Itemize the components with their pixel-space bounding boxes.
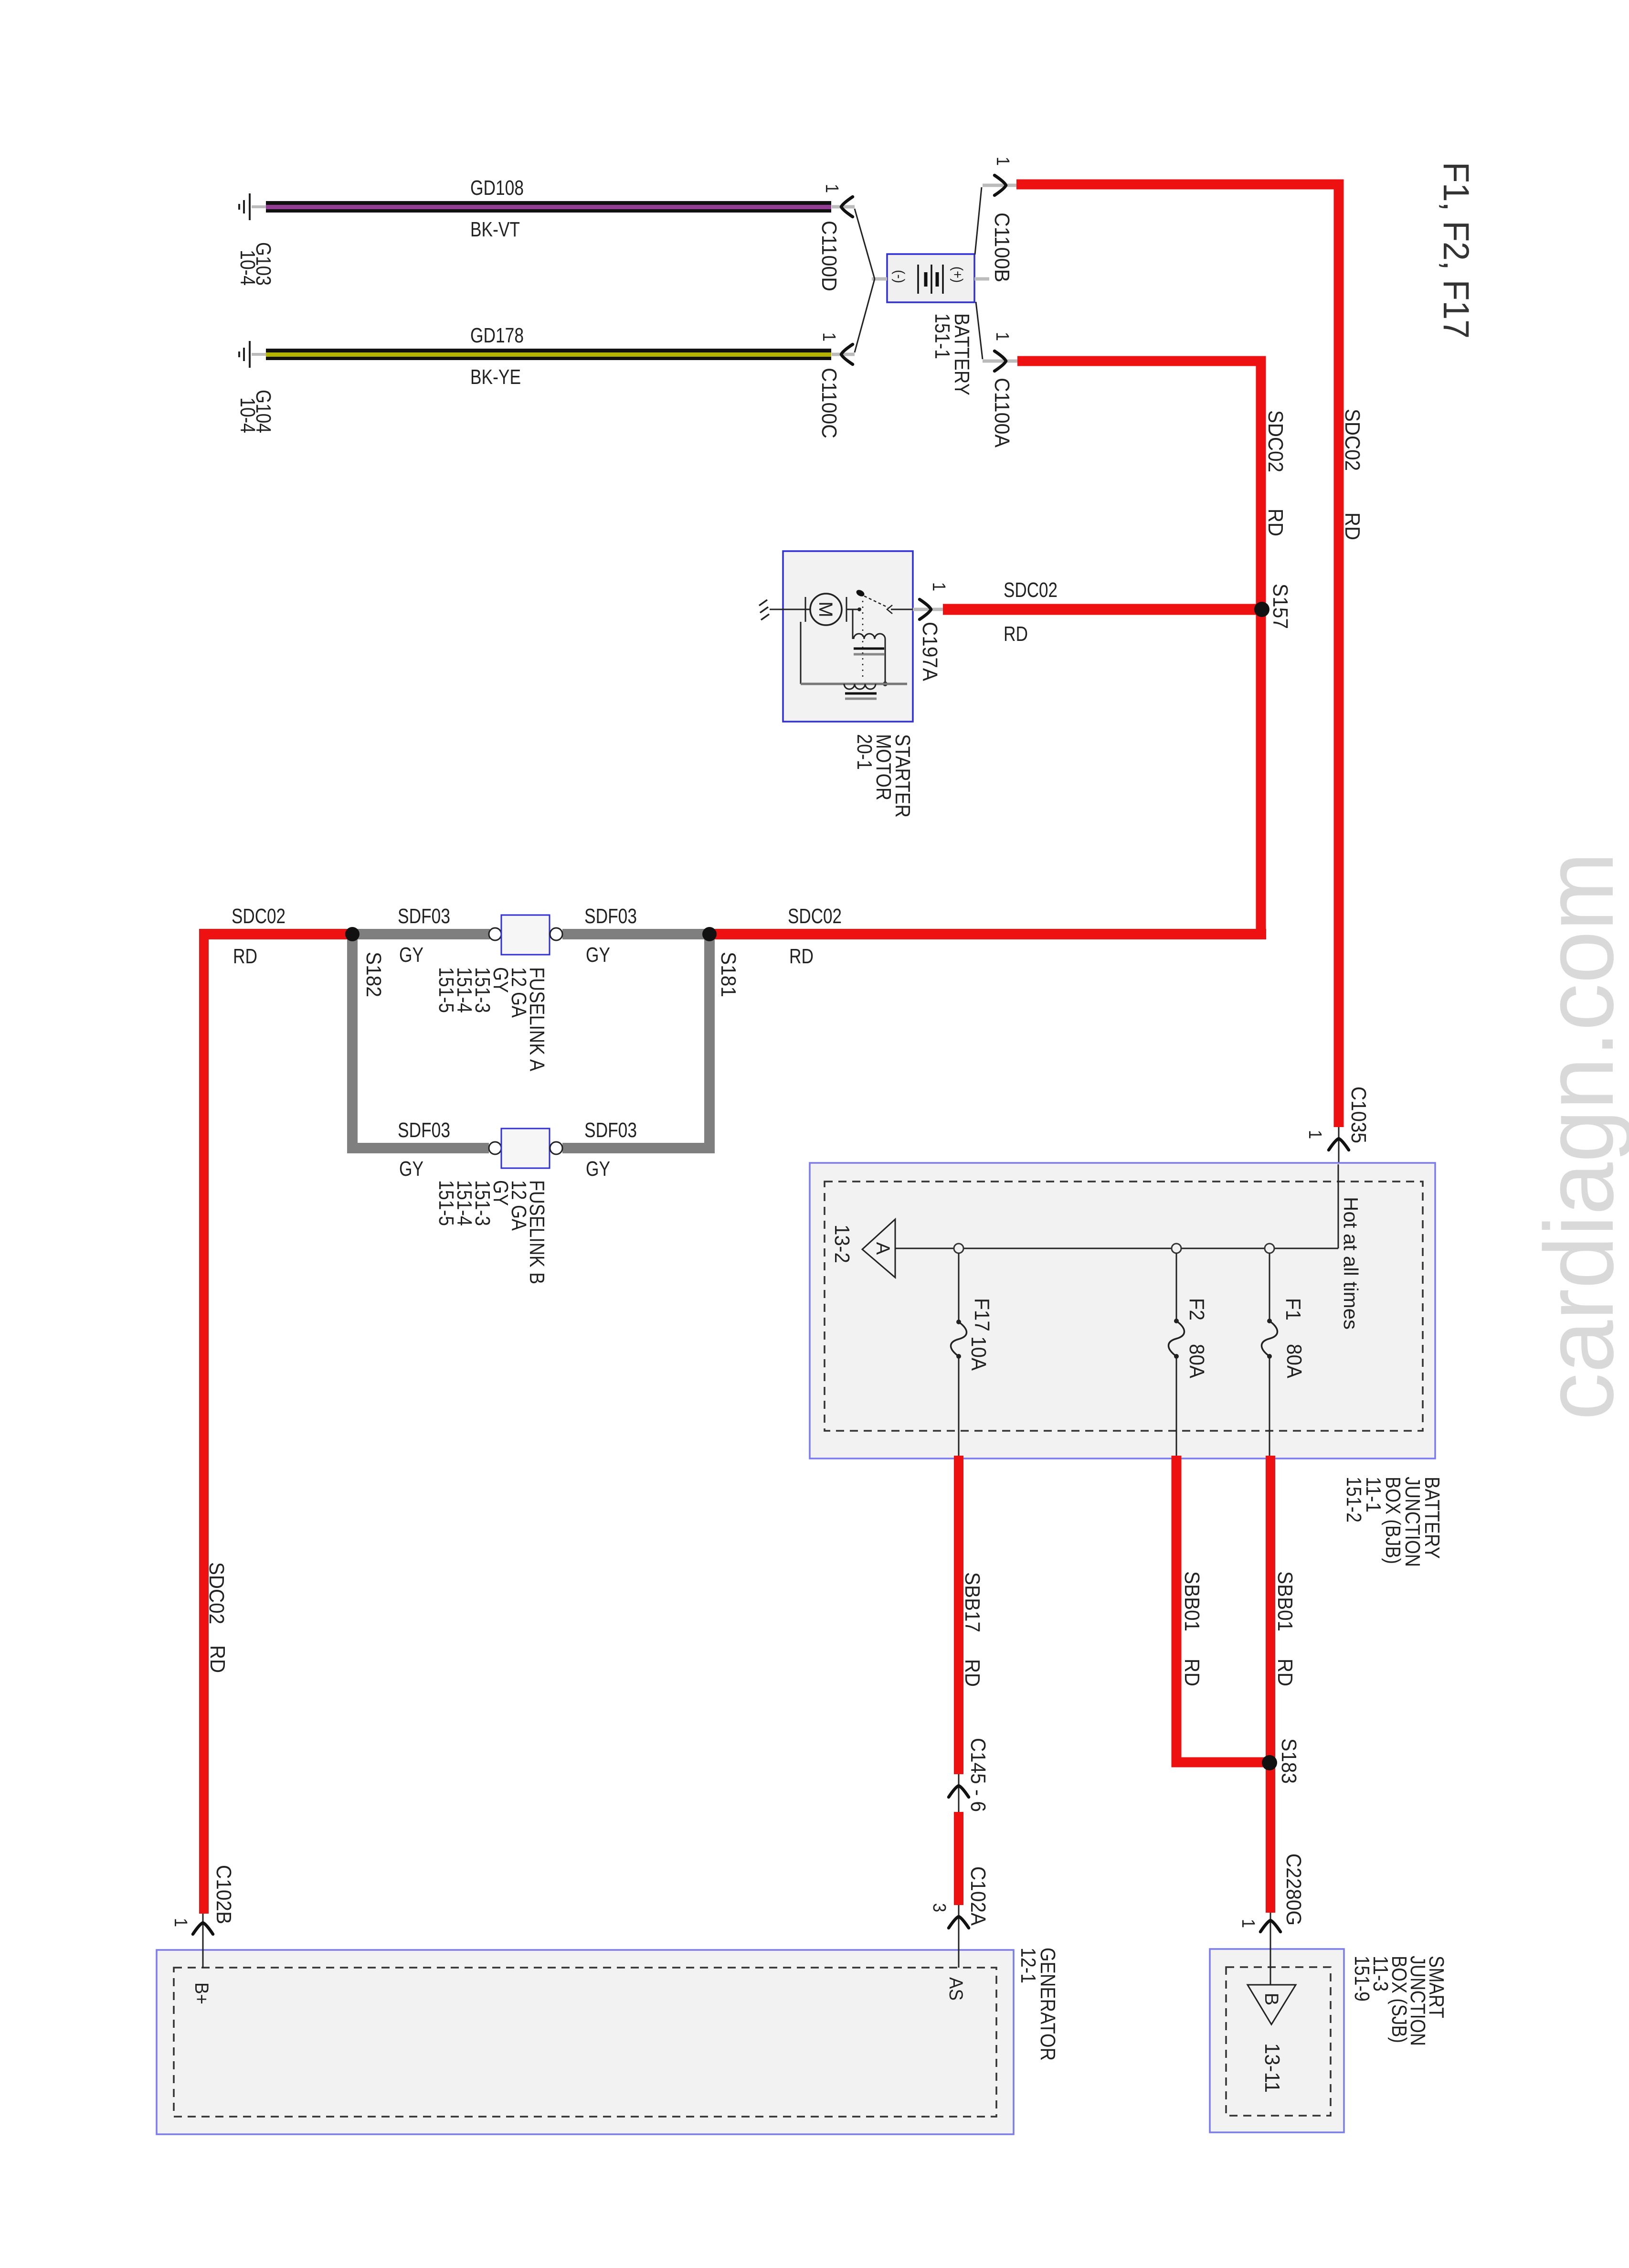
wire fuse F2 to box edge — [1176, 1356, 1177, 1456]
connector C1100B — [994, 175, 1006, 195]
svg-text:cardiagn.com: cardiagn.com — [1524, 852, 1629, 1420]
svg-text:A: A — [872, 1242, 893, 1255]
svg-text:1: 1 — [170, 1918, 190, 1927]
ground G103 symbol — [239, 193, 250, 220]
svg-text:Hot at all times: Hot at all times — [1340, 1197, 1362, 1330]
wire SDC02 RD starter motor to S157 — [943, 604, 1262, 615]
wire SDC02 RD battery to C1035 (BJB feed) — [1016, 184, 1339, 1127]
bus tap circle F2 — [1172, 1244, 1181, 1253]
wire fuse F1 to box edge — [1269, 1356, 1270, 1456]
svg-text:151-9: 151-9 — [1350, 1956, 1374, 2002]
connector C1100D — [841, 197, 853, 217]
junction S182 — [345, 927, 360, 941]
wire bus to fuse F2 — [1176, 1253, 1177, 1321]
label G104 10-4 — [236, 390, 275, 433]
svg-text:GD108: GD108 — [470, 176, 524, 200]
connector C1035 — [1329, 1139, 1349, 1150]
wire bus to fuse F1 — [1269, 1253, 1270, 1321]
label FUSELINK A — [434, 967, 549, 1072]
ground at starter motor — [759, 600, 783, 620]
svg-text:C1100A: C1100A — [990, 378, 1014, 448]
wire battery(+) to C1100A — [976, 302, 983, 359]
svg-text:B+: B+ — [191, 1982, 212, 2004]
svg-text:RD: RD — [1004, 622, 1028, 646]
fuselink A — [489, 915, 562, 955]
svg-text:SDF03: SDF03 — [584, 1118, 637, 1142]
svg-text:RD: RD — [1264, 509, 1287, 536]
lead into SJB C2280G — [1270, 1913, 1271, 1985]
battery B1 box — [887, 254, 974, 302]
BJB feed wire from C1035 — [1338, 1164, 1339, 1248]
svg-text:151-5: 151-5 — [434, 1180, 458, 1226]
wire bus to fuse F17 — [958, 1253, 960, 1322]
svg-text:RD: RD — [961, 1659, 984, 1687]
svg-text:GY: GY — [399, 943, 423, 967]
svg-text:S182: S182 — [362, 952, 385, 997]
wire SDC02 RD S181 to riser — [709, 929, 1266, 939]
starter dotted actuation line — [862, 601, 864, 681]
label G103 10-4 — [236, 242, 275, 286]
wire GD178 BK-YE (black/yellow ground strap) — [266, 349, 831, 360]
fuse F2 80A — [1169, 1319, 1185, 1359]
svg-text:1: 1 — [822, 184, 842, 193]
svg-text:BK-VT: BK-VT — [470, 218, 520, 241]
generator box — [157, 1950, 1014, 2134]
svg-text:B: B — [1261, 1993, 1282, 2006]
wire grey stub at G104 — [252, 353, 266, 356]
battery junction box (BJB) — [810, 1163, 1435, 1459]
starter hold-in coil on return wire — [801, 622, 907, 699]
svg-text:F1, F2, F17: F1, F2, F17 — [1436, 162, 1476, 339]
svg-text:RD: RD — [1341, 512, 1364, 540]
svg-text:12-1: 12-1 — [1016, 1948, 1040, 1983]
connector C1100C — [841, 344, 853, 364]
stub C197A — [913, 608, 943, 611]
svg-text:13-2: 13-2 — [830, 1225, 854, 1263]
starter motor M — [783, 594, 846, 625]
svg-text:1: 1 — [929, 582, 949, 591]
svg-text:GY: GY — [399, 1157, 423, 1181]
svg-text:GD178: GD178 — [470, 324, 524, 347]
BJB inner dashed boundary — [825, 1182, 1423, 1431]
label BATTERY 151-1 — [931, 313, 973, 395]
fuse F1 80A — [1262, 1319, 1278, 1359]
lead into generator (AS) — [958, 1905, 960, 1968]
generator inner dashed boundary — [174, 1968, 996, 2117]
svg-text:GY: GY — [586, 1157, 610, 1181]
lead into generator (B+) — [202, 1914, 204, 1968]
wire SDF03 GY S182 to fuselink A — [352, 929, 490, 939]
smart junction box (SJB) — [1210, 1949, 1344, 2132]
fuse F17 10A — [951, 1320, 967, 1359]
wire fuse F17 to box edge — [958, 1356, 960, 1456]
svg-text:(-): (-) — [891, 270, 907, 283]
svg-text:1: 1 — [993, 157, 1013, 166]
svg-text:F2: F2 — [1185, 1298, 1208, 1320]
wire SBB17 RD from F17 — [954, 1456, 963, 1774]
svg-text:80A: 80A — [1185, 1344, 1208, 1379]
svg-text:1: 1 — [1238, 1919, 1258, 1928]
bus tap circle F17 — [954, 1244, 963, 1253]
svg-text:SBB01: SBB01 — [1273, 1571, 1297, 1631]
wire SBB17 RD to C102A — [954, 1812, 963, 1905]
junction S183 — [1262, 1755, 1277, 1770]
svg-text:C1100C: C1100C — [817, 368, 841, 438]
SJB inner dashed boundary — [1226, 1967, 1331, 2116]
svg-text:(+): (+) — [950, 266, 965, 283]
wire SDC02 RD corner to S182 — [204, 929, 352, 939]
wire SDF03 GY S182 down to fuselink B — [352, 934, 489, 1148]
ground G104 symbol — [239, 341, 250, 368]
junction S181 — [702, 927, 717, 941]
svg-text:SDC02: SDC02 — [232, 905, 286, 928]
wire SBB01 RD from F1 through S183 — [1266, 1456, 1275, 1913]
svg-text:80A: 80A — [1282, 1344, 1306, 1379]
svg-text:SDF03: SDF03 — [398, 1118, 450, 1142]
svg-text:F1: F1 — [1281, 1298, 1305, 1320]
svg-text:C1035: C1035 — [1347, 1086, 1370, 1143]
wire SDF03 GY fuselink A to S181 — [562, 929, 709, 939]
wire battery(-) to C1100D — [855, 209, 875, 279]
starter solenoid switch — [846, 588, 913, 614]
wire SDF03 GY fuselink B up to S181 — [562, 934, 709, 1148]
wire SDC02 RD down to C102B (generator B+) — [199, 929, 209, 1914]
battery right stub — [974, 277, 989, 281]
svg-text:SDC02: SDC02 — [1004, 578, 1058, 602]
stub C1100B — [983, 184, 1017, 187]
svg-text:3: 3 — [929, 1903, 949, 1912]
connector C102A — [949, 1917, 969, 1928]
connector C102B — [193, 1923, 213, 1934]
fuselink B — [489, 1129, 562, 1168]
bus tap circle F1 — [1265, 1244, 1274, 1253]
svg-text:BK-YE: BK-YE — [470, 365, 521, 389]
svg-text:M: M — [815, 601, 836, 617]
svg-text:SDC02: SDC02 — [1341, 409, 1364, 471]
connector C145-6 — [949, 1786, 969, 1797]
svg-text:1: 1 — [992, 332, 1012, 341]
wire battery(-) to C1100C — [855, 279, 875, 352]
svg-text:AS: AS — [945, 1977, 966, 2001]
lead at C145 — [958, 1774, 960, 1812]
stub C1100D — [832, 205, 855, 209]
svg-text:151-5: 151-5 — [434, 967, 458, 1013]
svg-text:S181: S181 — [717, 952, 740, 997]
wire battery(+) to C1100B — [975, 187, 982, 255]
connector C2280G — [1260, 1920, 1280, 1932]
svg-text:1: 1 — [819, 332, 839, 341]
svg-text:151-1: 151-1 — [931, 313, 954, 359]
stub C1100C — [832, 353, 855, 356]
svg-text:SDC02: SDC02 — [1264, 410, 1287, 472]
svg-text:SDC02: SDC02 — [205, 1562, 228, 1624]
svg-text:13-11: 13-11 — [1260, 2043, 1284, 2093]
label FUSELINK B — [434, 1180, 549, 1284]
svg-text:1: 1 — [1305, 1130, 1325, 1139]
lead into BJB C1035 — [1338, 1127, 1340, 1167]
label STARTER MOTOR 20-1 — [853, 734, 914, 818]
svg-text:10-4: 10-4 — [236, 397, 259, 433]
svg-text:RD: RD — [233, 945, 257, 968]
svg-text:F17: F17 — [970, 1298, 994, 1331]
svg-text:SDF03: SDF03 — [584, 905, 637, 928]
battery plates — [918, 265, 943, 294]
BJB internal bus wire — [895, 1248, 1338, 1249]
svg-text:C1100D: C1100D — [817, 221, 841, 291]
wire GD108 BK-VT (black/violet ground strap) — [266, 201, 831, 213]
triangle B (internal circuit ref 13-11) — [1248, 1985, 1296, 2024]
svg-text:151-2: 151-2 — [1342, 1477, 1365, 1523]
svg-text:C102B: C102B — [212, 1865, 235, 1924]
svg-text:C145 - 6: C145 - 6 — [966, 1738, 990, 1812]
svg-text:RD: RD — [789, 945, 814, 968]
starter motor box — [783, 551, 913, 722]
svg-text:10-4: 10-4 — [236, 250, 259, 286]
connector C1100A — [994, 351, 1006, 371]
triangle A (internal circuit ref 13-2) — [862, 1219, 895, 1278]
svg-text:SBB01: SBB01 — [1180, 1571, 1204, 1631]
junction S157 — [1254, 602, 1269, 617]
svg-text:SBB17: SBB17 — [961, 1572, 984, 1632]
svg-text:S183: S183 — [1277, 1738, 1301, 1784]
svg-text:RD: RD — [206, 1645, 229, 1673]
svg-text:C102A: C102A — [966, 1866, 990, 1926]
svg-text:10A: 10A — [967, 1336, 990, 1371]
svg-text:C197A: C197A — [918, 622, 941, 681]
stub C1100A — [983, 360, 1017, 363]
starter solenoid pull-in coil — [853, 609, 888, 686]
wire SBB01 RD from F2 to S183 — [1176, 1456, 1265, 1762]
label BATTERY JUNCTION BOX (BJB) 11-1 151-2 — [1342, 1477, 1444, 1567]
connector C197A — [920, 599, 931, 619]
wire grey stub at G103 — [252, 205, 266, 208]
svg-text:C1100B: C1100B — [990, 213, 1014, 282]
svg-text:C2280G: C2280G — [1282, 1853, 1305, 1926]
svg-text:GY: GY — [586, 943, 610, 967]
svg-text:RD: RD — [1180, 1659, 1204, 1686]
battery left stub — [872, 277, 887, 281]
svg-text:S157: S157 — [1269, 584, 1292, 629]
svg-text:SDF03: SDF03 — [398, 905, 450, 928]
label SMART JUNCTION BOX (SJB) 11-3 151-9 — [1350, 1956, 1448, 2046]
wire SDC02 RD battery to S157 branch — [1017, 361, 1261, 934]
svg-text:SDC02: SDC02 — [788, 905, 842, 928]
svg-text:RD: RD — [1273, 1659, 1297, 1686]
label GENERATOR 12-1 — [1016, 1948, 1059, 2061]
svg-text:20-1: 20-1 — [853, 734, 876, 770]
